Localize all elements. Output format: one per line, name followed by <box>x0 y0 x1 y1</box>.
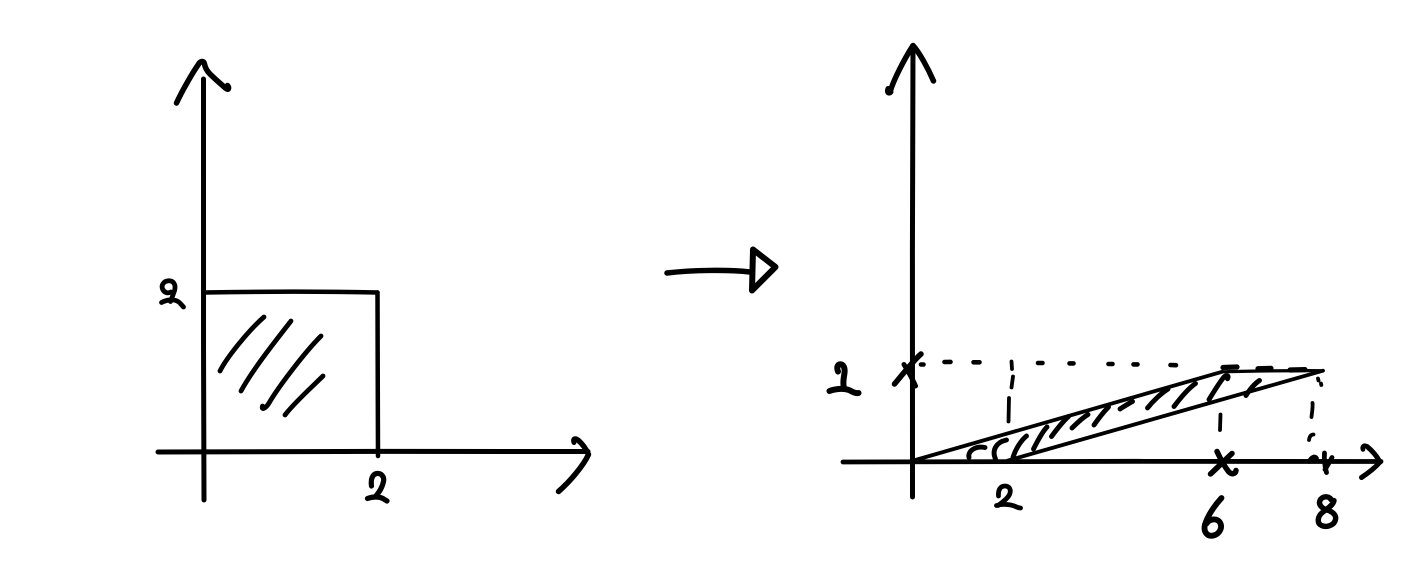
right x-axis arrowhead <box>1362 447 1381 478</box>
parallelogram upper-left edge <box>912 372 1222 461</box>
left x-axis arrowhead <box>559 441 589 492</box>
label 2 on right y-axis <box>830 364 859 393</box>
dashed vertical line at x=6 <box>1218 415 1222 431</box>
right x-axis <box>843 459 1381 465</box>
square hatch stroke 4 <box>285 376 323 415</box>
parallelogram hatch stroke 13 <box>1246 381 1260 396</box>
parallelogram hatch stroke 11 <box>1209 376 1228 400</box>
parallelogram hatch stroke 6 <box>1072 415 1088 429</box>
right y-axis arrowhead hook <box>887 89 891 94</box>
x mark on y-axis at 2 <box>895 354 922 384</box>
right y-axis arrowhead <box>890 46 934 93</box>
x mark on x-axis at 6 second stroke <box>1217 452 1236 474</box>
dashes over parallelogram top edge <box>1223 367 1305 370</box>
parallelogram hatch stroke 7 <box>1094 407 1109 425</box>
parallelogram lower-right edge <box>1007 371 1323 461</box>
label 2 on left y-axis <box>162 281 184 307</box>
square hatch stroke 3 <box>262 336 321 409</box>
mark on x-axis at 8 <box>1310 453 1333 473</box>
parallelogram hatch stroke 3 <box>1013 436 1027 458</box>
dotted horizontal line at y=2 <box>921 362 1176 365</box>
left y-axis arrowhead <box>177 61 229 103</box>
parallelogram hatch curl 1 <box>969 447 985 457</box>
dashed vertical line at x=8 <box>1309 379 1321 441</box>
label 2 on left x-axis <box>368 473 388 501</box>
parallelogram top edge <box>1222 371 1323 372</box>
mapping arrow head <box>752 250 776 291</box>
x mark on y-axis at 2 second stroke <box>904 365 916 387</box>
left y-axis <box>201 79 207 500</box>
right y-axis <box>910 46 916 497</box>
label 6 on right x-axis <box>1205 498 1222 536</box>
square hatch stroke 1 <box>220 317 264 371</box>
parallelogram hatch curl 2 <box>994 440 1006 459</box>
left x-axis <box>158 449 588 455</box>
label 2 on right x-axis at 2 <box>997 486 1021 508</box>
parallelogram hatch stroke 9 <box>1148 389 1169 408</box>
parallelogram hatch stroke 4 <box>1034 427 1048 449</box>
mapping arrow shaft <box>667 270 750 273</box>
left x-axis arrowhead hook <box>574 439 579 443</box>
x mark on x-axis at 6 <box>1211 454 1233 475</box>
square top edge <box>204 290 378 295</box>
square right edge <box>375 293 380 457</box>
right x-axis arrowhead hook <box>1363 446 1367 450</box>
parallelogram hatch stroke 5 <box>1052 417 1069 437</box>
square hatch stroke 2 <box>241 321 291 391</box>
parallelogram hatch stroke 8 <box>1120 402 1133 410</box>
dashed vertical line at x=2 <box>1009 362 1014 422</box>
label 8 on right x-axis <box>1318 497 1335 527</box>
parallelogram hatch stroke 10 <box>1174 384 1196 407</box>
